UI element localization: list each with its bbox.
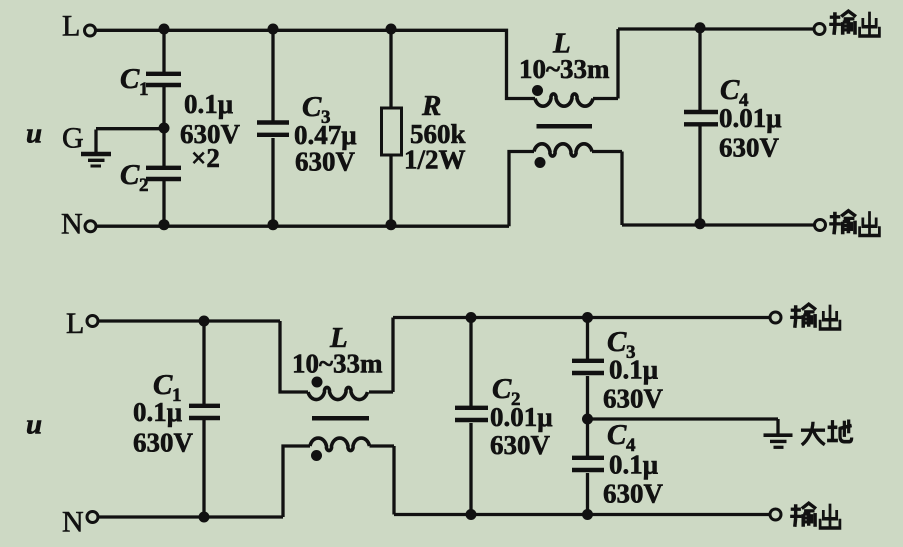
svg-text:0.1μ: 0.1μ: [609, 355, 658, 385]
node G junction dot: [159, 123, 170, 134]
resistor R branch wires: [389, 30, 392, 226]
terminal N (bottom circuit): [87, 512, 98, 523]
svg-text:N: N: [62, 506, 84, 539]
svg-text:630V: 630V: [133, 428, 194, 458]
terminal N (top circuit): [85, 221, 96, 232]
svg-text:C: C: [302, 91, 322, 123]
choke L (bottom circuit) winding 2: [283, 446, 310, 517]
svg-text:0.01μ: 0.01μ: [490, 402, 553, 432]
svg-text:1/2W: 1/2W: [404, 145, 466, 175]
capacitor C3 branch wires (bottom circuit): [586, 318, 589, 420]
svg-text:C: C: [120, 159, 140, 191]
resistor R body: [382, 108, 402, 155]
choke L (top circuit) winding 1: [535, 94, 593, 106]
output terminal bottom (top circuit): [815, 220, 826, 231]
wire: bottom rail right (bottom circuit): [394, 513, 770, 516]
terminal L (top circuit): [85, 25, 96, 36]
label output bottom (bottom circuit): [790, 503, 816, 527]
svg-text:0.01μ: 0.01μ: [719, 103, 782, 133]
svg-text:0.47μ: 0.47μ: [294, 120, 357, 150]
label earth 大地: [801, 422, 825, 445]
core bar (top circuit): [537, 124, 593, 129]
wire: bottom rail right: [622, 223, 814, 226]
wire: top rail right: [618, 27, 814, 30]
svg-text:×2: ×2: [191, 143, 220, 173]
core bar (bottom circuit): [312, 416, 369, 421]
junction dots top circuit bottom rail: [159, 219, 170, 230]
svg-text:C: C: [120, 63, 140, 95]
polarity dot winding 1 (top circuit): [532, 85, 543, 96]
svg-text:10~33m: 10~33m: [292, 349, 383, 379]
wire: top rail right (bottom circuit): [393, 316, 770, 319]
svg-text:C: C: [492, 373, 512, 405]
capacitor C2 plates (bottom circuit): [455, 408, 488, 420]
earth ground symbol: [764, 433, 793, 437]
svg-text:630V: 630V: [295, 147, 356, 177]
capacitor C2 plates: [146, 168, 181, 179]
capacitor C3 plates (bottom circuit): [572, 361, 604, 373]
capacitor C4 plates (bottom circuit): [572, 458, 604, 470]
svg-text:1: 1: [139, 79, 149, 100]
svg-text:C: C: [720, 74, 740, 106]
wire: top rail left: [97, 30, 536, 98]
capacitor C3 plates: [257, 123, 289, 135]
svg-text:L: L: [66, 307, 84, 340]
wire: bottom rail left (bottom circuit): [98, 515, 283, 518]
svg-text:G: G: [62, 122, 84, 155]
capacitor C1 branch wires (bottom circuit): [202, 321, 205, 517]
svg-text:u: u: [26, 409, 42, 441]
capacitor C4 plates: [684, 112, 718, 124]
svg-text:L: L: [62, 10, 80, 43]
svg-text:630V: 630V: [490, 430, 551, 460]
label output top (bottom circuit): [790, 304, 816, 328]
svg-text:0.1μ: 0.1μ: [609, 450, 658, 480]
choke L (bottom circuit) winding 1: [280, 321, 308, 392]
label output top (top circuit): [829, 11, 856, 35]
polarity dot winding 2 (top circuit): [535, 157, 546, 168]
svg-text:630V: 630V: [719, 133, 780, 163]
choke L (top circuit) winding 2: [509, 152, 534, 227]
capacitor C4 branch wires (bottom circuit): [586, 419, 589, 515]
ground symbol (top circuit): [81, 152, 111, 156]
capacitor C3 branch wires: [271, 30, 274, 226]
output terminal top (top circuit): [814, 24, 825, 35]
label output bottom (top circuit): [829, 211, 856, 235]
wire: node G to C1/C2 midpoint: [96, 129, 164, 152]
svg-text:N: N: [61, 208, 83, 241]
capacitor C1 branch wires: [162, 30, 165, 226]
junction dots bottom circuit: [199, 316, 210, 327]
svg-text:10~33m: 10~33m: [519, 54, 610, 84]
svg-text:2: 2: [139, 175, 149, 196]
polarity dot winding 1 (bottom circuit): [312, 377, 323, 388]
output terminal top (bottom circuit): [770, 312, 781, 323]
node: C3/C4 midpoint dot: [582, 414, 593, 425]
svg-text:0.1μ: 0.1μ: [184, 89, 233, 119]
svg-text:630V: 630V: [603, 384, 664, 414]
wire: midpoint of C3/C4 to earth: [588, 419, 779, 434]
junction dots top circuit top rail: [159, 24, 170, 35]
polarity dot winding 2 (bottom circuit): [311, 450, 322, 461]
svg-text:R: R: [421, 90, 441, 122]
capacitor C4 branch wires: [698, 29, 701, 225]
wire: top rail left (bottom circuit): [98, 319, 281, 322]
terminal L (bottom circuit): [87, 316, 98, 327]
svg-text:u: u: [26, 118, 42, 150]
capacitor C2 branch wires (bottom circuit): [469, 318, 472, 515]
svg-text:C: C: [607, 326, 627, 358]
capacitor C1 plates (bottom circuit): [189, 406, 220, 418]
svg-text:630V: 630V: [603, 479, 664, 509]
capacitor C1 plates: [146, 74, 181, 85]
output terminal bottom (bottom circuit): [770, 509, 781, 520]
svg-text:0.1μ: 0.1μ: [133, 397, 182, 427]
svg-text:C: C: [607, 419, 627, 451]
wire: bottom rail left: [97, 225, 509, 228]
